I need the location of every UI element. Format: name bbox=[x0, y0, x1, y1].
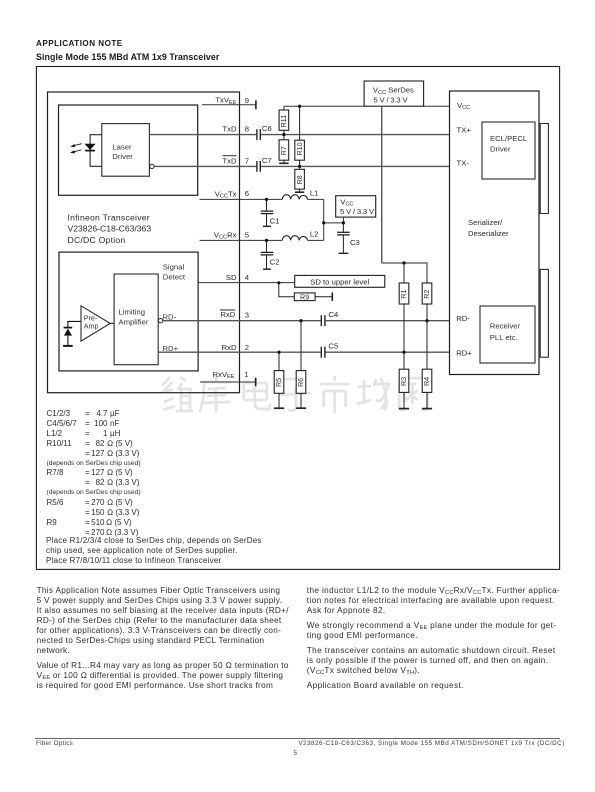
svg-text:5 V / 3.3 V: 5 V / 3.3 V bbox=[374, 95, 409, 104]
svg-text:VCCTx: VCCTx bbox=[215, 189, 237, 199]
svg-text:TX-: TX- bbox=[457, 159, 470, 168]
wire VCC SerDes feed down bbox=[381, 106, 383, 263]
laser driver U-TX bbox=[102, 124, 150, 177]
footer right bbox=[298, 740, 564, 748]
svg-text:R8: R8 bbox=[295, 175, 304, 184]
pin name labels bbox=[213, 96, 237, 381]
svg-text:SD: SD bbox=[226, 273, 237, 282]
inductor L2 bbox=[282, 236, 307, 241]
wire RxVEE pin1 bbox=[200, 381, 256, 383]
svg-text:Limiting: Limiting bbox=[119, 307, 146, 316]
inductor L1 bbox=[282, 195, 307, 200]
svg-text:R1: R1 bbox=[399, 289, 408, 298]
svg-text:C7: C7 bbox=[262, 156, 272, 165]
capacitor C4 bbox=[321, 315, 325, 326]
svg-text:ECL/PECL: ECL/PECL bbox=[490, 134, 528, 143]
svg-text:Amp: Amp bbox=[84, 322, 99, 330]
svg-text:VCC: VCC bbox=[457, 101, 470, 111]
svg-text:R2: R2 bbox=[422, 289, 431, 298]
svg-text:RD-: RD- bbox=[163, 312, 177, 321]
svg-text:C6: C6 bbox=[262, 124, 272, 133]
resistor R7 bbox=[279, 135, 289, 164]
svg-text:TxD: TxD bbox=[222, 157, 237, 166]
svg-text:Amplifier: Amplifier bbox=[119, 318, 149, 327]
wire pre-amp to limiting amplifier bbox=[110, 322, 114, 324]
photodiode D-RX bbox=[68, 321, 81, 328]
svg-text:RD-: RD- bbox=[456, 314, 470, 323]
svg-text:R10: R10 bbox=[295, 142, 304, 155]
svg-text:C3: C3 bbox=[350, 238, 360, 247]
junction RD+ / R1 R3 bbox=[402, 351, 405, 354]
resistor R1 bbox=[399, 283, 409, 352]
svg-text:R3: R3 bbox=[399, 377, 408, 386]
resistor R10 bbox=[295, 106, 305, 166]
receiver sub-box bbox=[59, 252, 198, 371]
light emission arrows bbox=[70, 144, 82, 154]
junction VCC SerDes rail / R1 bbox=[402, 261, 405, 264]
receiver PLL block bbox=[480, 306, 535, 363]
VCC 5V/3.3V supply box bbox=[336, 196, 376, 217]
svg-text:Signal: Signal bbox=[163, 262, 185, 271]
resistor R5 bbox=[274, 352, 284, 408]
terminal pin9 bbox=[255, 100, 257, 109]
title bbox=[36, 39, 123, 49]
wire TxD(bar) pin7 bbox=[154, 165, 256, 167]
svg-text:Infineon Transceiver: Infineon Transceiver bbox=[68, 212, 150, 222]
svg-text:C5: C5 bbox=[328, 341, 338, 350]
resistor R11 bbox=[279, 106, 289, 134]
svg-text:V23826-C18-C63/363: V23826-C18-C63/363 bbox=[68, 224, 152, 234]
svg-text:7: 7 bbox=[245, 157, 249, 166]
page number bbox=[294, 750, 298, 758]
svg-text:3: 3 bbox=[245, 311, 249, 320]
wire VCCRx pin5 bbox=[200, 239, 324, 241]
svg-text:R7: R7 bbox=[279, 146, 288, 155]
label signal detect bbox=[163, 262, 186, 281]
junction VCC node / C3 bbox=[342, 221, 345, 224]
svg-text:Serializer/: Serializer/ bbox=[468, 218, 503, 227]
svg-text:L1: L1 bbox=[310, 189, 319, 198]
svg-text:R9: R9 bbox=[300, 292, 309, 301]
svg-text:Deserializer: Deserializer bbox=[468, 229, 509, 238]
svg-text:C4: C4 bbox=[328, 310, 339, 319]
inverter bubble TxD(bar) bbox=[150, 164, 154, 168]
svg-text:DC/DC Option: DC/DC Option bbox=[68, 235, 126, 245]
wire receiver PLL side bracket bbox=[540, 269, 548, 357]
pin numbers bbox=[244, 96, 249, 379]
wire TxD pin8 bbox=[149, 134, 256, 136]
svg-text:Driver: Driver bbox=[112, 152, 133, 161]
svg-text:2: 2 bbox=[245, 343, 249, 352]
junction RxD / R5 bbox=[277, 351, 280, 354]
resistor R3 bbox=[399, 352, 409, 408]
capacitor C6 bbox=[257, 129, 260, 140]
VCC SerDes supply box bbox=[364, 81, 424, 106]
svg-text:5 V / 3.3 V: 5 V / 3.3 V bbox=[340, 207, 375, 216]
svg-text:8: 8 bbox=[245, 124, 249, 133]
footer left bbox=[36, 740, 73, 748]
wire laser driver anode/cathode stubs bbox=[90, 135, 102, 167]
label Infineon Transceiver bbox=[68, 212, 152, 245]
svg-text:Detect: Detect bbox=[163, 272, 186, 281]
body text left column bbox=[37, 586, 289, 692]
junction TxD(bar) / R10 R8 bbox=[298, 165, 301, 168]
svg-text:TxD: TxD bbox=[222, 125, 237, 134]
wire rail to R1 R2 bbox=[382, 263, 427, 283]
component value notes bbox=[47, 409, 71, 419]
wire L1/L2 join to VCC node bbox=[324, 199, 344, 240]
SD to upper level box bbox=[295, 275, 385, 287]
pre-amp A1 bbox=[81, 306, 110, 341]
svg-text:R4: R4 bbox=[422, 377, 431, 386]
junction VCCRx / C2 bbox=[265, 239, 268, 242]
svg-text:SD to upper level: SD to upper level bbox=[310, 277, 369, 286]
wire RxD pin2 bbox=[158, 351, 320, 353]
transceiver module box bbox=[48, 92, 240, 393]
capacitor C1 bbox=[261, 199, 280, 226]
outer schematic frame bbox=[36, 67, 559, 570]
junction TxD / R11 R7 bbox=[282, 133, 285, 136]
subtitle bbox=[36, 52, 219, 62]
svg-text:R5: R5 bbox=[274, 378, 283, 387]
svg-text:TX+: TX+ bbox=[457, 126, 472, 135]
svg-text:L2: L2 bbox=[310, 230, 319, 239]
resistor R9 bbox=[279, 283, 333, 302]
svg-text:RxVEE: RxVEE bbox=[213, 370, 235, 380]
capacitor C7 bbox=[257, 161, 260, 172]
footer rule bbox=[35, 738, 560, 739]
wire VCC box to node bbox=[342, 217, 344, 223]
wire SD pin4 bbox=[198, 282, 295, 284]
svg-text:R6: R6 bbox=[296, 378, 305, 387]
terminal pin1 bbox=[255, 378, 257, 386]
capacitor C3 bbox=[337, 223, 360, 253]
svg-text:R11: R11 bbox=[279, 115, 288, 128]
svg-text:C1: C1 bbox=[270, 216, 280, 225]
overline TxD(bar) pin7 bbox=[223, 155, 237, 157]
wire VCCTx pin6 bbox=[200, 198, 324, 200]
capacitor C2 bbox=[261, 240, 280, 269]
inverter bubble RD- bbox=[158, 319, 162, 323]
wire TxVEE pin9 bbox=[202, 104, 256, 106]
svg-text:6: 6 bbox=[245, 189, 249, 198]
limiting amplifier A2 bbox=[114, 274, 158, 365]
svg-text:RxD: RxD bbox=[222, 343, 237, 352]
junction VCCTx / C1 bbox=[265, 198, 268, 201]
resistor R6 bbox=[296, 321, 306, 409]
junction SD / R9 bbox=[277, 281, 280, 284]
wire RxD(bar) pin3 bbox=[163, 320, 321, 322]
svg-text:9: 9 bbox=[245, 96, 249, 105]
junction RxD(bar) / R6 bbox=[299, 319, 302, 322]
svg-text:Driver: Driver bbox=[490, 145, 511, 154]
wire ECL/PECL side bracket bbox=[540, 124, 548, 214]
ECL/PECL driver block bbox=[482, 122, 535, 179]
resistor R8 bbox=[295, 166, 305, 192]
svg-text:VCCRx: VCCRx bbox=[214, 230, 237, 240]
svg-text:1: 1 bbox=[244, 370, 248, 379]
svg-text:PLL etc.: PLL etc. bbox=[490, 333, 518, 342]
svg-text:RxD: RxD bbox=[220, 310, 235, 319]
node rail VCC top bbox=[284, 105, 450, 107]
svg-text:C2: C2 bbox=[270, 257, 280, 266]
serializer/deserializer chip U2 bbox=[450, 91, 540, 375]
resistor R4 bbox=[422, 321, 432, 409]
svg-text:RD+: RD+ bbox=[456, 348, 472, 357]
capacitor C5 bbox=[321, 347, 325, 358]
junction L1 L2 node bbox=[322, 221, 325, 224]
svg-text:Laser: Laser bbox=[112, 143, 132, 152]
resistor R2 bbox=[422, 283, 432, 321]
body text right column bbox=[307, 586, 560, 692]
laser diode D-LD bbox=[85, 144, 96, 150]
overline RxD(bar) pin3 bbox=[220, 309, 235, 311]
svg-text:4: 4 bbox=[245, 273, 250, 282]
svg-text:Receiver: Receiver bbox=[490, 322, 521, 331]
junction RD- / R2 R4 bbox=[425, 319, 428, 322]
junction VCC rail / R10 bbox=[298, 105, 301, 108]
transmitter sub-box bbox=[59, 105, 198, 195]
svg-text:5: 5 bbox=[245, 230, 249, 239]
